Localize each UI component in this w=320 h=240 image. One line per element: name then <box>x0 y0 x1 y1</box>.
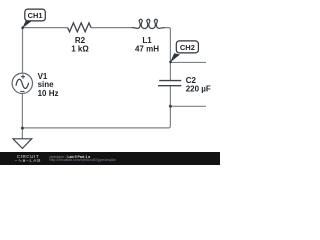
capacitor C2 <box>158 81 181 86</box>
wire top rail right segment with corner down to CH2 node <box>165 28 171 63</box>
wire bottom rail <box>22 127 168 129</box>
footer bar <box>0 152 220 165</box>
probe label CH1 pointer <box>22 20 32 29</box>
wire CH2 node down to capacitor top <box>169 62 171 80</box>
wire V1 top lead <box>22 28 24 74</box>
svg-text:220 µF: 220 µF <box>186 84 211 93</box>
source V1 plus sign <box>21 75 25 79</box>
resistor R2 <box>68 23 92 32</box>
source V1 circle <box>12 73 32 93</box>
wire CH2 stub to right <box>170 61 206 63</box>
wire capacitor bottom to bottom rail <box>169 86 171 128</box>
probe label CH2 box <box>176 41 198 53</box>
probe label CH1 box <box>25 9 46 21</box>
ground symbol <box>13 139 32 149</box>
source V1 sine wave <box>16 79 29 88</box>
svg-text:10 Hz: 10 Hz <box>38 89 59 98</box>
junction dot right (stub / capacitor leg) <box>169 105 172 108</box>
wire mid-right stub <box>170 105 206 107</box>
source V1 minus sign <box>20 90 24 92</box>
inductor L1 <box>132 19 165 28</box>
wire top rail left segment <box>23 28 68 30</box>
wire top rail middle segment <box>91 27 132 29</box>
svg-text:CH2: CH2 <box>180 43 195 52</box>
svg-text:sine: sine <box>38 80 55 89</box>
junction dot left (bottom rail / ground) <box>21 127 24 130</box>
probe label CH2 pointer <box>170 53 180 62</box>
footer title text <box>50 156 116 163</box>
footer CircuitLab logo <box>13 155 43 164</box>
svg-text:CH1: CH1 <box>28 11 43 20</box>
svg-text:1 kΩ: 1 kΩ <box>71 44 89 53</box>
svg-text:47 mH: 47 mH <box>135 45 159 54</box>
wire V1 bottom lead to ground <box>21 94 23 139</box>
